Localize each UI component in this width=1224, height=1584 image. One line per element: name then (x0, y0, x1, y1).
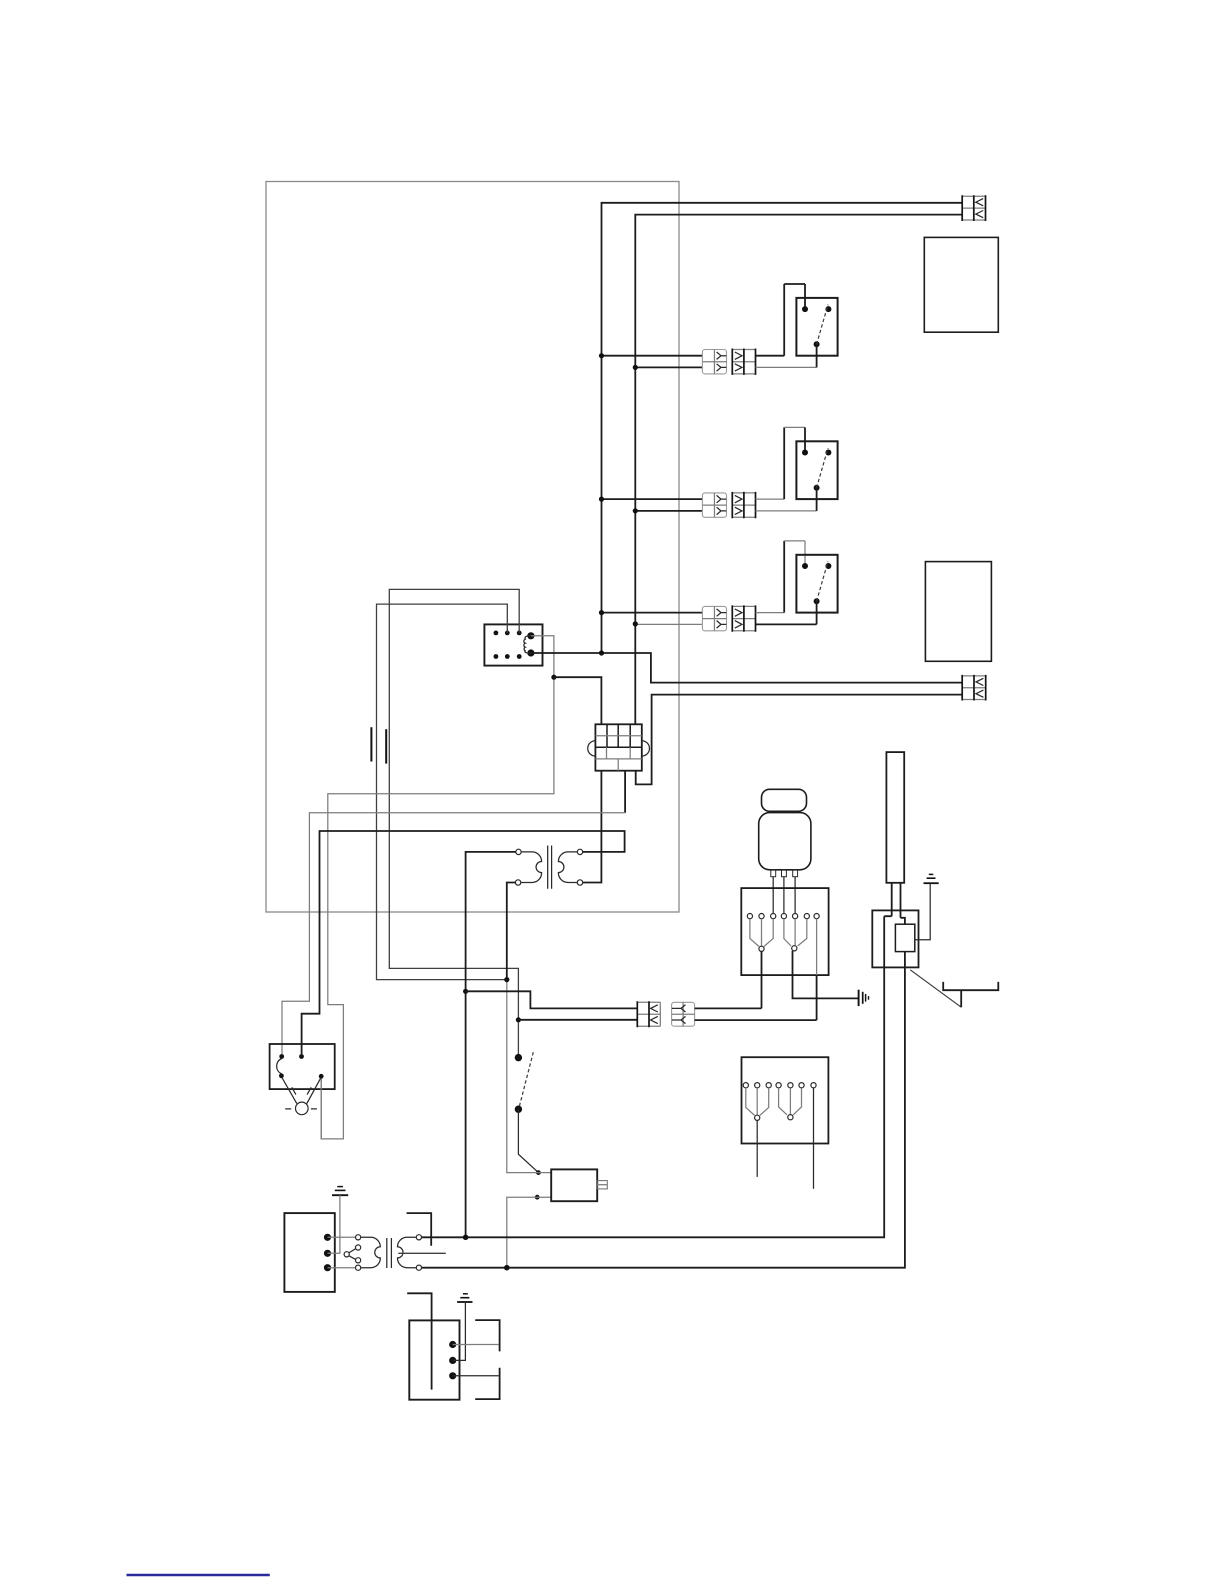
wire: fuse block pin 3 to ignition coil secondary low (583, 771, 602, 883)
ignition switch blade (dashed) (519, 1052, 533, 1107)
wire: magneto ground terminal to G4 (328, 1195, 340, 1253)
component box (upper right) (924, 237, 998, 332)
node: block pair lower wire tap (516, 1017, 521, 1022)
ignition coil primary terminal (upper left) (516, 849, 521, 854)
connector CN-B (2-pin, right) (962, 675, 986, 701)
plug cap inner jogs (884, 916, 905, 924)
wire bus B (to connector CN-A) (635, 215, 962, 725)
lighting coil core (387, 1238, 392, 1268)
switch SW1 contact A (802, 306, 808, 312)
wire: horn return loop to frame (320, 1079, 322, 1139)
connector CN-D box (lower) (742, 1057, 829, 1143)
connector pair male half (row SW1) (732, 349, 755, 375)
shield mark (left wire) (370, 727, 372, 761)
connector pair male half (row SW3) (732, 605, 755, 631)
ground G4 (magneto) (332, 1187, 348, 1196)
wire: relay pin 2 up-over-down to ignition switch (black/yellow) (389, 589, 519, 1054)
battery box (409, 1320, 459, 1399)
wire: CN-D pin 7 stub (813, 1088, 815, 1189)
magneto / flywheel box (284, 1213, 334, 1292)
node: bus A end on relay wire (599, 650, 604, 655)
fuse block left ear (588, 741, 596, 756)
ignition coil primary terminal (lower left) (515, 880, 520, 885)
kick lever (diagonal) (910, 970, 961, 1007)
switch SW1 common pole (814, 341, 820, 367)
lighting coil center tap (398, 1252, 446, 1254)
wires: CDI pins to connector CN-C (773, 877, 795, 914)
connector CN-D right fork (779, 1088, 802, 1115)
connector pair female half (center) (672, 1002, 695, 1026)
horn switch pin (feed) (279, 1054, 284, 1059)
shield mark (right wire) (385, 729, 387, 763)
switch SW1 contact B (825, 306, 831, 312)
node: main bus tap at coil wire (504, 977, 509, 982)
relay coil terminal (upper) (527, 632, 534, 639)
wires: resistor to plug cap (892, 883, 901, 918)
wire: lighting bus to connector pair upper (466, 991, 638, 1008)
switch SW3 contact A (802, 563, 808, 569)
switch SW3 contact B (825, 563, 831, 569)
connector CN-A (2-pin, top right) (962, 195, 985, 221)
bracket (battery shield corner) (407, 1293, 431, 1389)
wire: male half to switch SW3 common (756, 623, 817, 625)
plug cap inner resistor box (895, 924, 914, 951)
connector CN-C pin circles (747, 914, 819, 919)
wire: starter lower terminal to magneto charge bus (507, 1197, 551, 1268)
wire: battery bottom terminal to frame bracket (453, 1375, 499, 1377)
CDI pin tab 3 (793, 870, 798, 877)
wire: male half to switch SW2 contact A (756, 498, 785, 500)
horn switch pin (lower left) (279, 1073, 284, 1078)
CDI pin tab 1 (771, 870, 776, 877)
CDI pin tab 2 (782, 870, 787, 877)
wire: male half to switch SW1 common (756, 366, 817, 368)
ignition coil secondary terminal (lower right) (577, 880, 582, 885)
CDI unit cap (762, 789, 807, 811)
battery terminal (mid) (449, 1357, 456, 1364)
battery terminal (bottom) (449, 1372, 456, 1379)
relay unit box (484, 624, 542, 665)
switch SW2 blade (dashed) (817, 448, 828, 488)
wire: bus A to connector row SW3 (602, 612, 703, 614)
node: relay branch junction (551, 675, 556, 680)
switch SW1 box (796, 298, 837, 356)
lighting coil terminals (left) (356, 1235, 361, 1271)
CDI unit body (759, 813, 811, 870)
wire: ignition switch wire to connector pair lower (518, 1019, 637, 1021)
lighting coil secondary terminals (416, 1235, 421, 1271)
wire: CN-C pin 7 down (816, 919, 818, 975)
wire: fuse block pin 4 to horn switch feed (black/white) (624, 771, 626, 813)
wire: connector pair lower to CDI pin 7 (695, 1019, 817, 1021)
wire: relay coil upper to horn button (light green) (321, 636, 554, 1139)
horn switch pin (lower right) (319, 1074, 324, 1079)
wire: ignition switch lower contact to starter terminal (518, 1109, 538, 1172)
connector pair female half (row SW1) (702, 350, 726, 374)
bracket (frame, lower right of battery) (475, 1368, 499, 1399)
connector pair female half (row SW2) (702, 493, 726, 517)
spark plug cap box (872, 910, 918, 967)
connector CN-D left fork node (755, 1115, 760, 1120)
wire: magneto to coil primary bottom (328, 1267, 356, 1269)
switch SW3 box (796, 555, 837, 613)
node: starter upper terminal (536, 1170, 541, 1175)
horn switch unit box (270, 1044, 335, 1089)
horn dashes (285, 1087, 317, 1109)
connector CN-D pin circles (743, 1083, 816, 1088)
wire: relay coil lower to connector CN-B pin 1 (531, 653, 962, 683)
bracket (frame, upper right of battery) (475, 1320, 499, 1351)
switch SW2 box (796, 441, 837, 499)
switch SW3 blade (dashed) (817, 562, 828, 602)
magneto terminal (charge) (324, 1264, 331, 1271)
horn switch contact arc (277, 1059, 282, 1074)
fuse block connector box (595, 724, 641, 770)
node: bus A taps (599, 353, 604, 615)
lighting coil primary winding (361, 1237, 381, 1267)
connector CN-C right fork node (792, 946, 797, 951)
node: starter lower terminal (535, 1195, 540, 1200)
wire: CN-D left fork stub (756, 1120, 758, 1177)
connector CN-C box (below CDI) (741, 888, 828, 975)
connector pair female half (row SW3) (702, 606, 726, 630)
switch SW3 common pole (814, 598, 820, 624)
connector CN-C left fork (750, 919, 773, 947)
ignition timing unit box (starter) (551, 1169, 597, 1201)
ignition coil secondary terminal (upper right) (577, 849, 582, 854)
switch SW2 contact B (825, 450, 831, 456)
wire: relay pin 1 up-over-down to magneto bus (black/red) (377, 604, 508, 980)
wire: plug cap inner resistor down to charge bus (422, 952, 905, 1268)
bracket (coil shield corner) (407, 1213, 432, 1246)
wire: CN-C left fork to connector pair upper (761, 951, 763, 1008)
wire: CN-C right fork to engine ground (793, 951, 859, 999)
wire: plug shell to ground G1 (915, 883, 930, 940)
wire: junction to fuse block pin 1 (554, 677, 602, 724)
relay coil terminal (lower) (527, 649, 534, 656)
ignition coil primary winding (521, 852, 542, 883)
switch SW1 blade (dashed) (817, 305, 828, 345)
wire: bus A to connector row SW1 (602, 355, 703, 357)
horn body leads (282, 1078, 320, 1104)
node: lighting bus tap at block wire (463, 989, 468, 994)
battery terminal (top) (449, 1341, 456, 1348)
node: lighting bus terminal (463, 1235, 469, 1241)
fuse block right ear (642, 741, 650, 756)
node: bus B taps (633, 365, 638, 627)
connector CN-C left fork node (759, 946, 764, 951)
wire: ignition coil upper left to magneto lighting bus (466, 852, 516, 1237)
wire: battery top terminal to frame bracket (453, 1344, 499, 1346)
horn switch pin (power) (299, 1054, 304, 1059)
spark plug cable resistor (886, 752, 904, 883)
wire: connector pair upper to CDI harness (695, 1007, 762, 1009)
node: ignition switch lower contact (515, 1106, 522, 1113)
ground G5 (battery) (457, 1294, 472, 1302)
wiring harness boundary box (266, 182, 679, 913)
wire: bus B to connector row SW1 (635, 366, 702, 368)
wire: male half to switch SW2 common (756, 510, 817, 512)
connector pair male half (row SW2) (732, 492, 755, 518)
horn body circle (296, 1102, 309, 1115)
node: charge bus terminal (504, 1265, 510, 1271)
relay pins (top row) (494, 631, 522, 636)
wire: male half to switch SW1 contact A (756, 355, 785, 357)
wire bus A (to connector CN-A) (602, 203, 963, 653)
kick pedal bracket (943, 982, 998, 1007)
footer rule (127, 1574, 270, 1576)
wire: magneto to coil primary top (328, 1236, 356, 1238)
relay coil winding (524, 636, 531, 653)
lighting coil secondary winding (397, 1237, 416, 1267)
switch SW2 common pole (814, 485, 820, 511)
wire: bus A to connector row SW2 (602, 498, 703, 500)
wire: main bus to starter upper terminal (507, 980, 551, 1173)
wire: battery mid terminal to G5 (453, 1302, 466, 1360)
connector pair male half (center) (637, 1001, 660, 1027)
switch SW2 contact A (802, 450, 808, 456)
wire: fuse block pin 5 to connector CN-B pin 2 (636, 695, 963, 785)
ground G3 (engine, sideways) (859, 990, 869, 1006)
relay pins (bottom row) (494, 654, 522, 659)
node: ignition switch upper contact (515, 1054, 522, 1061)
wire: bus B to connector row SW2 (635, 510, 702, 512)
wire: ignition coil upper right to horn power (black) (302, 831, 625, 1054)
wire: ignition coil lower left to main bus (507, 883, 516, 980)
magneto terminal (lighting) (324, 1234, 331, 1241)
wire: male half to switch SW3 contact A (756, 612, 785, 614)
connector CN-D left fork (746, 1088, 769, 1116)
magneto terminal (ground) (324, 1250, 331, 1257)
connector CN-C right fork (784, 919, 807, 946)
wire: plug cap left lead down to lighting bus (422, 916, 885, 1237)
lighting coil selector node (344, 1249, 356, 1260)
connector CN-D right fork node (788, 1115, 793, 1120)
ignition coil secondary winding (558, 852, 577, 883)
component box (middle right) (925, 562, 991, 662)
wire: CN-C pin 7 to connector pair lower (816, 975, 818, 1020)
wire: bus B to connector row SW3 (635, 623, 702, 625)
ignition coil core (548, 846, 552, 889)
ground G1 (plug shell) (924, 874, 939, 883)
ignition timing unit terminal tab (597, 1181, 607, 1189)
